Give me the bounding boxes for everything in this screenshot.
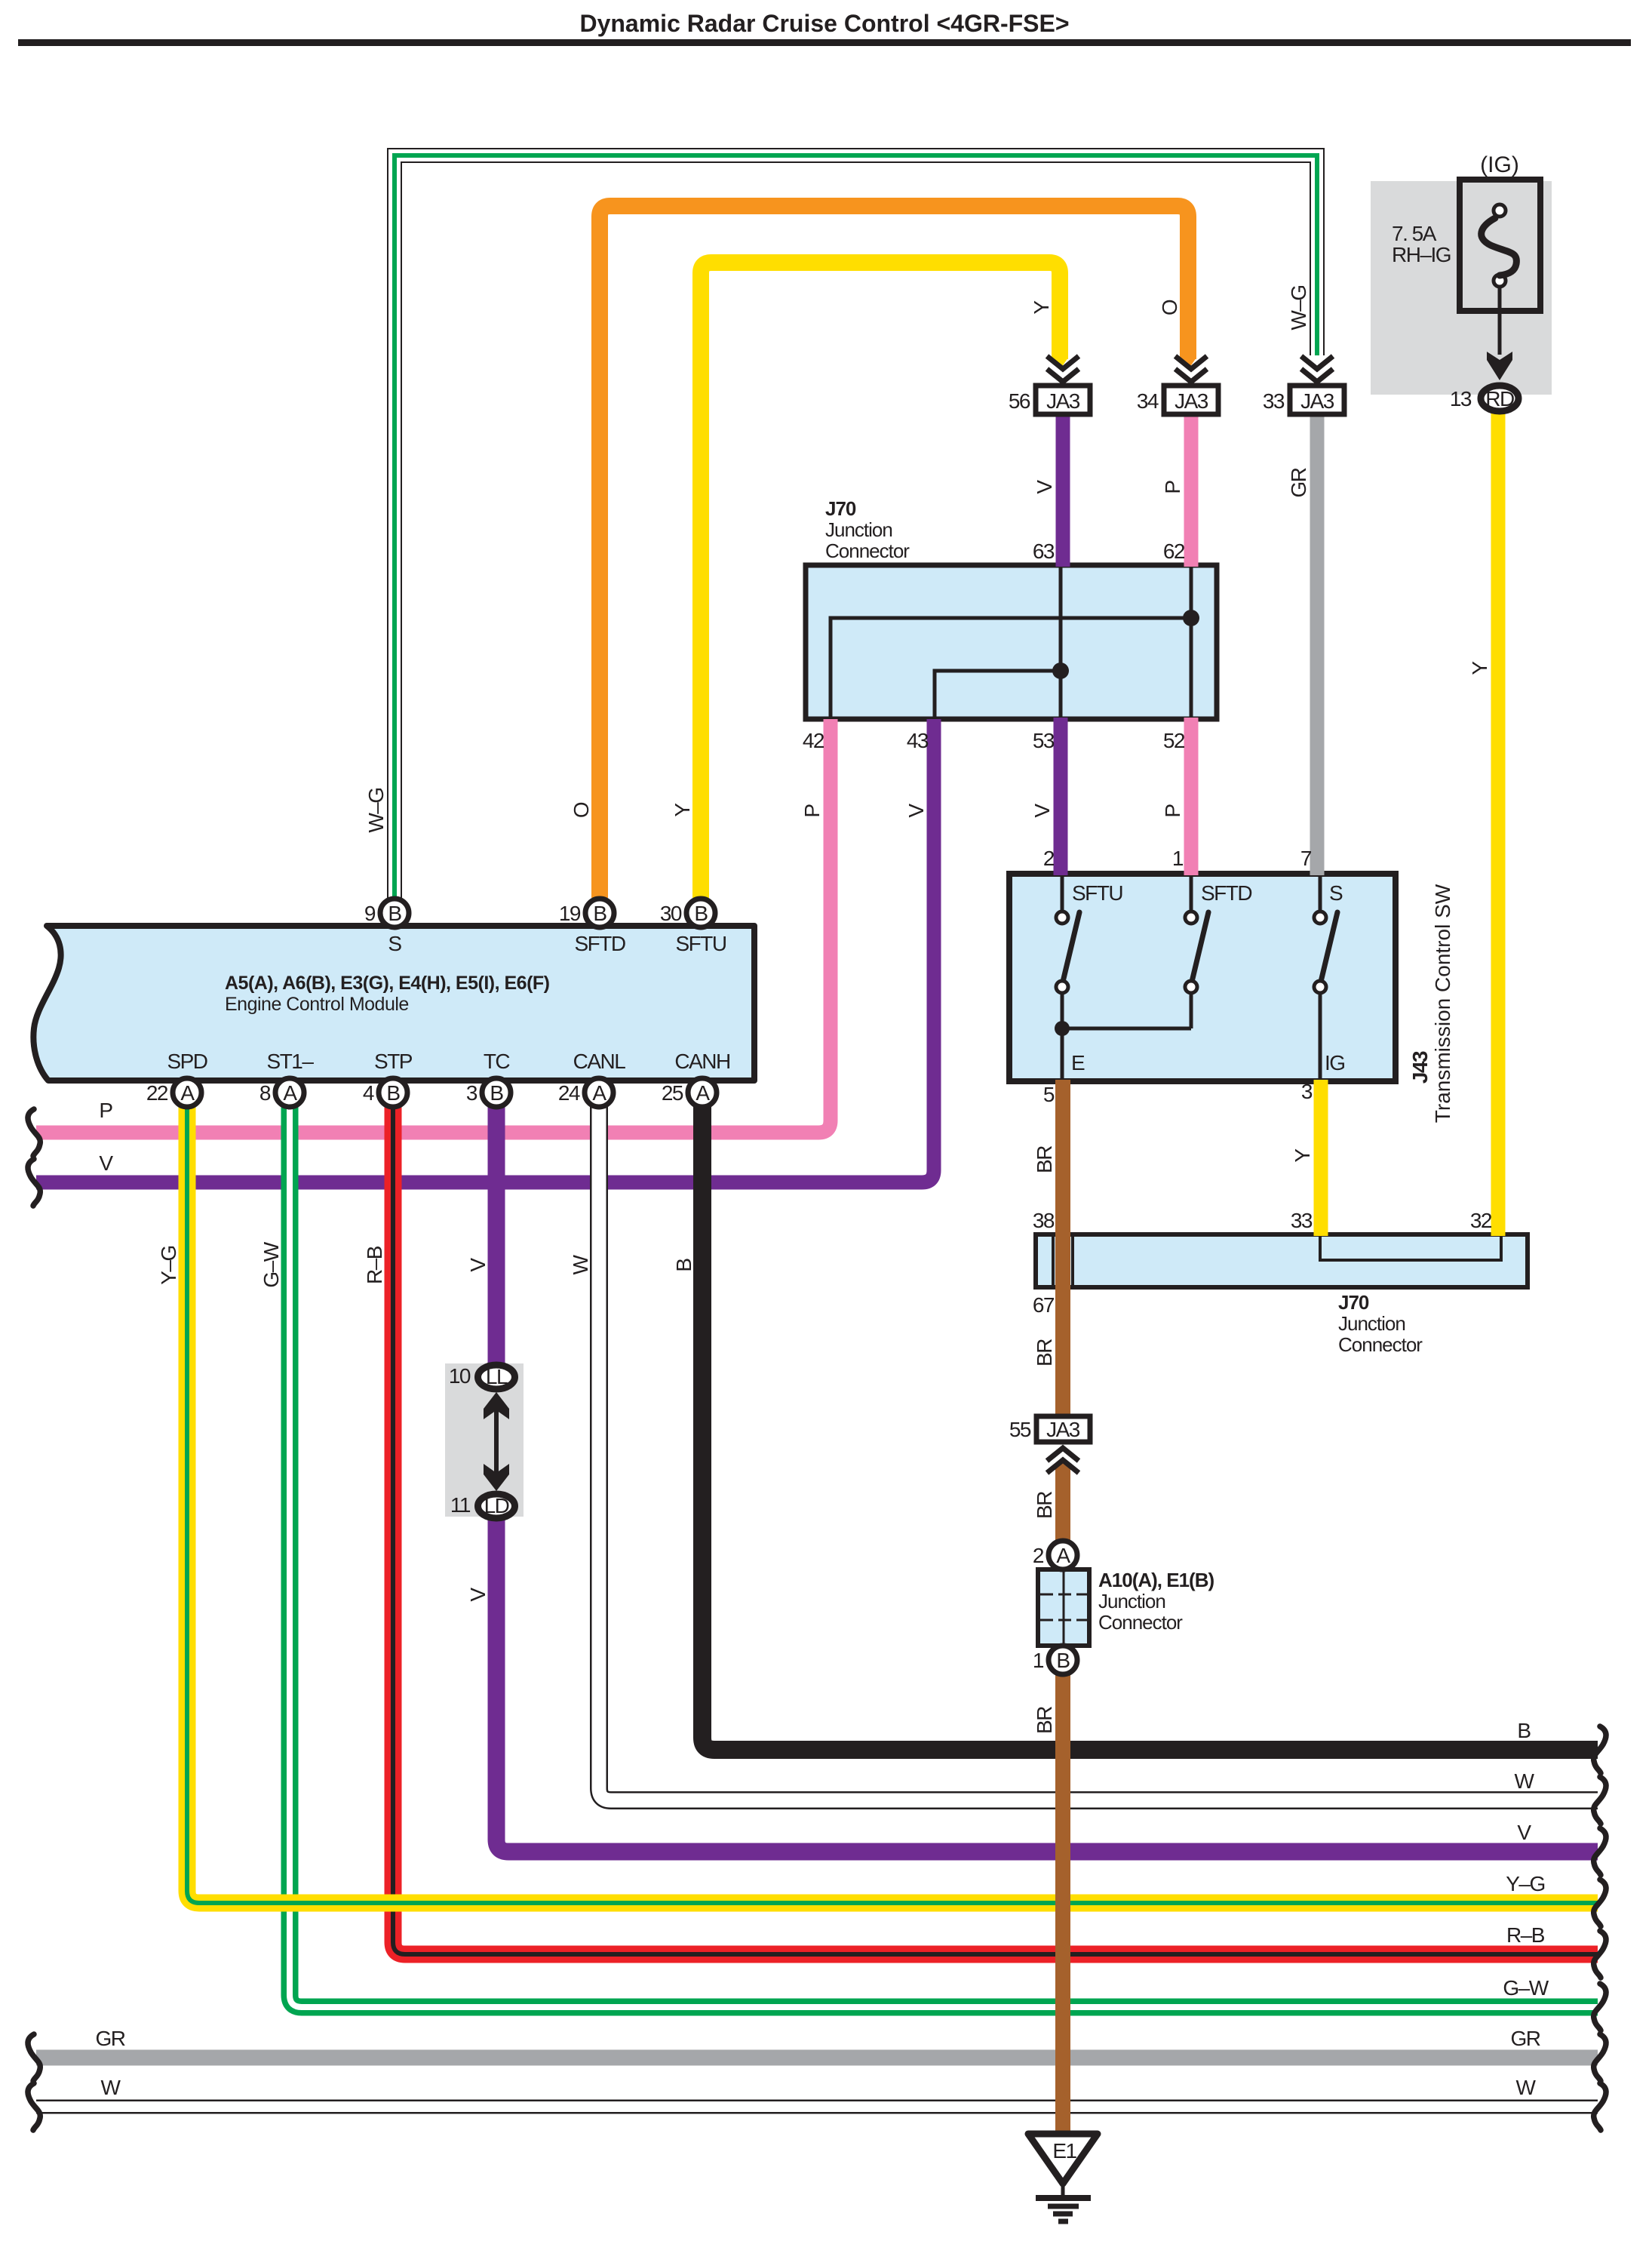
svg-text:Junction: Junction: [1338, 1312, 1405, 1335]
svg-text:S: S: [388, 932, 401, 955]
svg-text:3: 3: [466, 1081, 477, 1105]
wire BR from A10 pin 1 to E1 ground: [1055, 1671, 1070, 2134]
svg-text:O: O: [570, 802, 593, 818]
svg-text:ST1–: ST1–: [267, 1050, 315, 1073]
svg-text:P: P: [1161, 804, 1184, 818]
svg-text:G–W: G–W: [259, 1241, 283, 1287]
connector 55 JA3: [1009, 1416, 1090, 1442]
brace W left: [28, 2083, 40, 2130]
svg-text:G–W: G–W: [1503, 1976, 1549, 2000]
svg-text:SFTU: SFTU: [675, 932, 726, 955]
svg-text:B: B: [694, 902, 708, 925]
switch contact circles: [1056, 911, 1326, 993]
svg-text:43: 43: [907, 729, 929, 752]
svg-text:3: 3: [1301, 1080, 1313, 1103]
arrow tip of O wire: [1180, 358, 1196, 370]
chevron arrow into 34 JA3: [1175, 356, 1207, 386]
svg-text:2: 2: [1043, 847, 1055, 870]
svg-text:38: 38: [1033, 1209, 1055, 1232]
fuse 7.5A RH-IG: [1392, 152, 1540, 380]
wire P from J70 pin 52 to TCS pin 1: [1184, 718, 1199, 875]
brace Y-G right: [1594, 1880, 1606, 1926]
ground E1: [1028, 2134, 1098, 2221]
svg-text:67: 67: [1033, 1293, 1055, 1317]
svg-text:V: V: [466, 1258, 490, 1272]
svg-text:13: 13: [1450, 387, 1472, 410]
svg-text:O: O: [1158, 300, 1181, 315]
svg-text:1: 1: [1033, 1649, 1044, 1672]
svg-text:19: 19: [559, 902, 581, 925]
svg-text:B: B: [593, 902, 606, 925]
svg-text:A10(A), E1(B): A10(A), E1(B): [1098, 1569, 1214, 1591]
svg-text:B: B: [1056, 1649, 1070, 1672]
brace W right bottom: [1594, 2083, 1606, 2130]
svg-text:RH–IG: RH–IG: [1392, 243, 1451, 266]
internal wire 63-53: [1059, 565, 1063, 719]
wire O loop from ECM SFTD to 34 JA3: [600, 206, 1188, 898]
svg-text:Transmission Control SW: Transmission Control SW: [1431, 884, 1454, 1123]
svg-text:STP: STP: [374, 1050, 413, 1073]
svg-text:Y: Y: [1468, 661, 1491, 675]
wire P bus (pink) from left brace to J70 pin 42: [36, 719, 831, 1133]
svg-text:V: V: [1517, 1821, 1531, 1844]
svg-text:9: 9: [364, 902, 376, 925]
svg-text:W: W: [101, 2076, 121, 2099]
svg-text:SFTD: SFTD: [574, 932, 625, 955]
svg-text:S: S: [1329, 881, 1343, 905]
title rule: [18, 39, 1631, 46]
svg-text:52: 52: [1163, 729, 1185, 752]
brace GR left: [28, 2034, 40, 2081]
svg-text:P: P: [800, 804, 824, 818]
svg-text:J43: J43: [1408, 1051, 1432, 1084]
svg-text:A: A: [695, 1081, 710, 1105]
svg-text:Junction: Junction: [825, 518, 892, 541]
svg-text:TC: TC: [484, 1050, 511, 1073]
svg-text:B: B: [1517, 1719, 1531, 1742]
svg-text:A5(A), A6(B), E3(G), E4(H), E5: A5(A), A6(B), E3(G), E4(H), E5(I), E6(F): [225, 973, 550, 994]
svg-text:LL: LL: [486, 1365, 508, 1388]
connector LL/LD bidirectional link: [484, 1392, 509, 1491]
Transmission Control SW box J43: [1009, 874, 1396, 1081]
svg-text:Engine Control Module: Engine Control Module: [225, 994, 409, 1015]
horizontal bus labels: [96, 1099, 1549, 2099]
svg-text:E1: E1: [1052, 2139, 1076, 2163]
terminal 11 LD: [450, 1493, 515, 1518]
ECM terminal circles top: 9(B), 19(B), 30(B): [364, 899, 715, 927]
svg-text:Y–G: Y–G: [157, 1246, 180, 1285]
svg-text:IG: IG: [1325, 1051, 1345, 1074]
svg-text:BR: BR: [1033, 1707, 1056, 1734]
wire BR from 55 JA3 to A10 pin 2: [1055, 1469, 1070, 1543]
svg-text:10: 10: [449, 1364, 471, 1388]
svg-text:55: 55: [1009, 1418, 1031, 1441]
brace W right: [1594, 1777, 1606, 1824]
wire V bus (violet) from left brace to J70 pin 43: [36, 719, 934, 1182]
E tie line: [1062, 1027, 1191, 1031]
wire B (CANH) from ECM to right brace: [702, 1093, 1598, 1750]
wire Y-G from ECM SPD to right brace: [187, 1093, 1598, 1903]
svg-text:30: 30: [660, 902, 682, 925]
svg-text:LD: LD: [484, 1494, 509, 1517]
wire P from 34 JA3 to J70 pin 62: [1184, 414, 1199, 567]
svg-text:GR: GR: [96, 2027, 125, 2050]
wire W (CANL) from ECM to right brace: [599, 1093, 1598, 1800]
svg-text:24: 24: [558, 1081, 580, 1105]
svg-text:Y: Y: [1030, 300, 1053, 315]
svg-text:J70: J70: [1338, 1291, 1369, 1314]
svg-text:22: 22: [146, 1081, 168, 1105]
svg-text:V: V: [904, 804, 928, 818]
svg-text:CANH: CANH: [674, 1050, 729, 1073]
svg-text:63: 63: [1033, 539, 1055, 563]
SFTU switch: [1061, 874, 1064, 912]
brace B right: [1594, 1726, 1606, 1773]
continuation braces: [28, 1109, 1606, 2130]
wire V from 56 JA3 to J70 pin 63: [1056, 414, 1070, 567]
ECM A5(A), A6(B), E3(G), E4(H), E5(I), E6(F) Engine Control Module box: [33, 926, 754, 1081]
svg-text:B: B: [386, 1081, 400, 1105]
svg-text:(IG): (IG): [1480, 152, 1519, 177]
ECM terminal circles bottom: 22(A) 8(A) 4(B) 3(B) 24(A) 25(A): [146, 1078, 717, 1107]
brace GR right: [1594, 2034, 1606, 2081]
wire V from LD to right brace: [496, 1506, 1598, 1852]
svg-text:J70: J70: [825, 497, 856, 520]
svg-text:V: V: [1030, 804, 1054, 818]
svg-text:BR: BR: [1033, 1492, 1056, 1519]
svg-text:1: 1: [1172, 847, 1184, 870]
svg-text:Y–G: Y–G: [1506, 1872, 1545, 1895]
chevron arrow into 56 JA3: [1047, 356, 1079, 386]
relay block LL/LD gray background: [445, 1363, 524, 1517]
wire Y from fuse RD to J70 pin 32: [1491, 412, 1506, 1236]
svg-text:11: 11: [450, 1493, 471, 1517]
brace G-W right: [1594, 1984, 1606, 2030]
svg-text:CANL: CANL: [573, 1050, 626, 1073]
internal wire 62-52: [1190, 565, 1193, 719]
svg-text:8: 8: [259, 1081, 271, 1105]
J70 lower internal lines: [1053, 1234, 1501, 1287]
svg-text:34: 34: [1137, 389, 1159, 413]
terminal 13 RD: [1450, 386, 1518, 411]
brace V left: [28, 1159, 40, 1206]
svg-text:62: 62: [1163, 539, 1185, 563]
junction dot 62/42: [1183, 610, 1199, 626]
svg-text:Junction: Junction: [1098, 1590, 1165, 1612]
svg-text:A: A: [592, 1081, 606, 1105]
arrow tip of Y wire: [1052, 358, 1068, 370]
wire G-W from ECM ST1- to right brace: [290, 1093, 1598, 2007]
svg-text:Connector: Connector: [825, 539, 910, 562]
svg-text:JA3: JA3: [1175, 389, 1208, 413]
junction dot at E: [1055, 1021, 1070, 1036]
connector 56 JA3: [1009, 386, 1090, 414]
svg-text:2: 2: [1033, 1544, 1044, 1567]
svg-text:V: V: [466, 1588, 490, 1602]
svg-text:25: 25: [662, 1081, 683, 1105]
svg-text:BR: BR: [1033, 1146, 1056, 1173]
svg-text:A: A: [180, 1081, 195, 1105]
svg-text:P: P: [1161, 481, 1184, 494]
connector 33 JA3: [1263, 386, 1344, 414]
A10 connector internal grid: [1040, 1569, 1087, 1646]
svg-text:7. 5A: 7. 5A: [1392, 222, 1437, 245]
svg-text:33: 33: [1263, 389, 1285, 413]
svg-text:W: W: [1515, 1769, 1535, 1793]
svg-text:SFTU: SFTU: [1072, 881, 1122, 905]
chevron arrow into 33 JA3: [1301, 356, 1333, 386]
svg-text:56: 56: [1009, 389, 1030, 413]
wire Y from TCS IG pin 3 to J70 pin 33: [1314, 1080, 1328, 1236]
svg-text:53: 53: [1033, 729, 1055, 752]
svg-text:Connector: Connector: [1098, 1611, 1183, 1634]
brace V right: [1594, 1828, 1606, 1875]
svg-text:R–B: R–B: [1506, 1923, 1545, 1947]
svg-text:E: E: [1071, 1051, 1085, 1074]
chevron arrow up into 55 JA3: [1047, 1448, 1079, 1473]
svg-text:A: A: [283, 1081, 297, 1105]
svg-text:V: V: [1033, 480, 1056, 494]
wire R-B from ECM STP to right brace: [393, 1093, 1598, 1954]
svg-text:42: 42: [803, 729, 824, 752]
svg-text:GR: GR: [1287, 468, 1310, 497]
wire W-G loop from ECM S to 33 JA3: [395, 155, 1317, 898]
svg-text:32: 32: [1470, 1209, 1492, 1232]
svg-text:JA3: JA3: [1300, 389, 1334, 413]
J70 upper internal wiring: [831, 565, 1191, 719]
S switch: [1319, 874, 1322, 912]
svg-text:7: 7: [1300, 847, 1312, 870]
Transmission SW internals: [1062, 874, 1337, 1081]
svg-text:P: P: [99, 1099, 112, 1122]
svg-text:SFTD: SFTD: [1201, 881, 1251, 905]
J70 Junction Connector box (upper): [806, 565, 1217, 719]
svg-text:SPD: SPD: [167, 1050, 207, 1073]
svg-text:Connector: Connector: [1338, 1333, 1423, 1356]
brace P left: [28, 1109, 40, 1156]
fuse panel gray background: [1371, 181, 1552, 395]
svg-text:W: W: [569, 1254, 592, 1274]
J70 Junction Connector box (lower): [1036, 1234, 1528, 1287]
A10(A), E1(B) Junction Connector box: [1038, 1569, 1089, 1646]
svg-text:5: 5: [1043, 1083, 1055, 1106]
internal wire to 43: [935, 671, 1061, 719]
terminal 10 LL: [449, 1364, 515, 1389]
svg-text:V: V: [99, 1151, 113, 1175]
svg-text:33: 33: [1291, 1209, 1313, 1232]
wire V from ECM TC to LL: [488, 1093, 505, 1377]
brace R-B right: [1594, 1931, 1606, 1978]
svg-text:B: B: [672, 1259, 695, 1272]
wire GR from 33 JA3 to TCS pin 7: [1310, 414, 1325, 875]
svg-text:W–G: W–G: [1287, 285, 1310, 330]
connector 34 JA3: [1137, 386, 1218, 414]
svg-text:JA3: JA3: [1046, 1418, 1080, 1441]
svg-text:4: 4: [363, 1081, 374, 1105]
svg-text:B: B: [490, 1081, 503, 1105]
junction dot 63/43: [1052, 662, 1069, 679]
svg-text:GR: GR: [1511, 2027, 1540, 2050]
svg-text:R–B: R–B: [363, 1246, 386, 1284]
wire W bus (bottom): [36, 2100, 1598, 2114]
svg-text:W: W: [1516, 2076, 1537, 2099]
svg-text:Y: Y: [671, 803, 694, 817]
wire BR from TCS E pin 5 through J70 pin 38/67 to 55 JA3: [1055, 1080, 1070, 1416]
svg-text:A: A: [1056, 1544, 1070, 1567]
svg-text:Dynamic Radar Cruise Control <: Dynamic Radar Cruise Control <4GR-FSE>: [579, 10, 1069, 37]
wire V from J70 pin 53 to TCS pin 2: [1054, 718, 1068, 875]
internal wire to 42: [831, 618, 1191, 719]
svg-text:BR: BR: [1033, 1339, 1056, 1366]
A10 terminal circles 2(A) 1(B): [1033, 1541, 1077, 1674]
svg-text:B: B: [388, 902, 401, 925]
wire Y loop from ECM SFTU to 56 JA3: [701, 263, 1060, 898]
svg-text:W–G: W–G: [364, 788, 388, 832]
rotated wire color labels: [157, 285, 1491, 1734]
svg-text:JA3: JA3: [1046, 389, 1080, 413]
wire GR bus (bottom): [36, 2050, 1598, 2066]
svg-text:RD: RD: [1485, 387, 1514, 410]
SFTD switch: [1190, 874, 1193, 912]
svg-text:Y: Y: [1291, 1148, 1314, 1163]
